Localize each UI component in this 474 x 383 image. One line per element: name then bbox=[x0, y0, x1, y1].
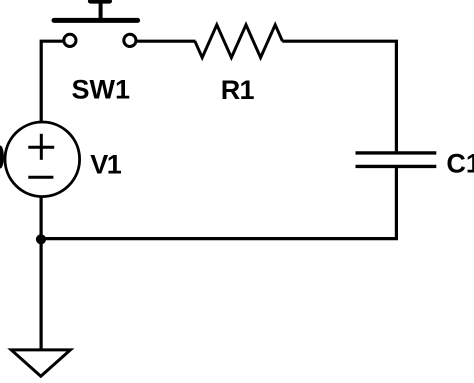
svg-text:R1: R1 bbox=[221, 75, 255, 105]
voltage source V1 bbox=[0, 122, 80, 197]
switch SW1 bbox=[54, 1, 138, 46]
wire top-left to V1 bbox=[41, 41, 62, 122]
svg-text:SW1: SW1 bbox=[72, 74, 131, 104]
wire SW1 to R1 bbox=[137, 40, 195, 43]
wire R1 to C1 bbox=[282, 41, 396, 151]
resistor R1 bbox=[195, 25, 283, 58]
wire C1 to bottom node bbox=[41, 168, 396, 239]
svg-text:C1: C1 bbox=[446, 149, 474, 179]
ground bbox=[11, 350, 70, 376]
capacitor C1 bbox=[356, 153, 437, 167]
wire V1 to ground bbox=[39, 196, 42, 350]
junction node bbox=[36, 234, 46, 244]
svg-text:V1: V1 bbox=[90, 150, 122, 180]
